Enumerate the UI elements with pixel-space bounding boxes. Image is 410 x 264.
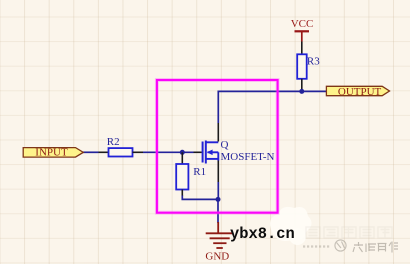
channel bar — [205, 141, 207, 164]
drain stub — [206, 141, 219, 143]
watermark gray glyphs — [353, 242, 398, 253]
svg-text:ybx8.cn: ybx8.cn — [230, 225, 295, 243]
svg-text:MOSFET-N: MOSFET-N — [221, 151, 275, 163]
svg-text:INPUT: INPUT — [35, 147, 68, 159]
svg-text:R1: R1 — [193, 166, 206, 178]
port OUTPUT — [326, 86, 389, 95]
pin: R2 right — [133, 151, 144, 153]
wire: R1 bottom to source node — [182, 196, 218, 200]
svg-text:VCC: VCC — [291, 18, 314, 30]
pin: R2 left — [99, 151, 109, 153]
junction node: gate/R1 — [180, 150, 185, 155]
gate bar — [202, 142, 204, 163]
power VCC symbol — [295, 31, 310, 41]
watermark dashed rule — [303, 245, 330, 247]
wire: R2 to MOSFET gate — [143, 151, 194, 153]
watermark logo circle — [335, 240, 346, 251]
resistor R1 body — [176, 164, 188, 190]
watermark white blob — [270, 207, 312, 245]
body-source spine — [217, 152, 219, 160]
pin: R1 bottom — [181, 190, 183, 197]
source stub — [206, 158, 219, 160]
junction node: source/R1/GND — [216, 197, 221, 202]
pin: R3 top — [301, 42, 303, 55]
wire: INPUT to R2 left pin — [83, 151, 99, 153]
port INPUT — [23, 148, 83, 158]
box: block outline glow — [157, 80, 278, 213]
transistor Q MOSFET-N — [203, 141, 219, 164]
resistor R3 body — [297, 54, 307, 79]
pin: R3 bottom — [301, 79, 303, 92]
junction node: output — [299, 89, 304, 94]
svg-text:R3: R3 — [307, 56, 320, 68]
svg-text:OUTPUT: OUTPUT — [338, 86, 382, 98]
pin: MOSFET gate — [194, 151, 202, 153]
svg-text:GND: GND — [205, 251, 229, 263]
body arrow — [207, 150, 213, 156]
resistor R2 body — [109, 148, 133, 156]
watermark faint brand glyphs — [306, 227, 392, 239]
svg-text:R2: R2 — [107, 136, 120, 148]
pin: R1 top — [181, 152, 183, 164]
wire: node down to ground — [217, 199, 219, 223]
body line — [208, 151, 219, 153]
box: block outline — [157, 80, 278, 213]
pin: MOSFET source — [217, 161, 219, 183]
ground GND symbol — [206, 222, 234, 248]
svg-text:Q: Q — [221, 139, 229, 151]
wire: source down to bottom node — [217, 182, 219, 199]
pin: MOSFET drain — [217, 123, 219, 142]
wire: drain up and right to output node — [218, 91, 327, 123]
